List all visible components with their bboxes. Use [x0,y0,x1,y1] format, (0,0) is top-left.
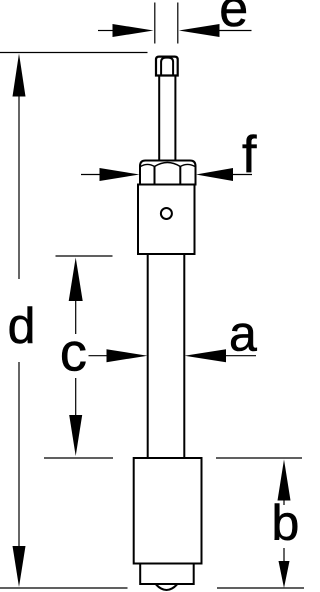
block body [138,185,195,255]
dimension e line right [218,30,252,32]
svg-text:f: f [242,126,257,184]
dimension d arrow up [13,54,26,97]
tip rectangle [140,564,194,585]
dimension a arrow right [185,349,227,362]
bottom extension line right [217,587,304,589]
tip dome [156,585,177,591]
dimension e extension line right [177,3,179,44]
svg-text:b: b [272,495,300,551]
dimension c arrow up [69,258,83,302]
dimension e extension line left [154,3,156,44]
svg-text:a: a [229,306,257,362]
bottom extension line left [0,587,128,589]
dimension c top extension line [56,255,113,257]
dimension a line right [224,355,256,357]
dimension b top extension line [216,457,302,459]
hex nut left facet arc [141,164,155,166]
dimension b arrow down [279,561,290,588]
dimension a line left [89,355,109,357]
hex nut inner line left [154,166,156,185]
svg-text:c: c [60,322,87,382]
svg-text:e: e [219,0,248,38]
dimension f line right [231,174,252,176]
dimension b line upper [283,499,285,505]
hex tip facet arch [161,58,173,76]
upper shaft [158,76,160,161]
dimension d arrow down [13,546,26,587]
dimension b arrow up [278,460,291,501]
dimension e line left [98,30,114,32]
block hole [161,208,172,219]
dimension c line lower [75,378,77,417]
dimension c line upper [75,298,77,334]
dimension f arrow left [100,168,140,181]
dimension a arrow left [107,349,148,362]
dimension d line upper [18,93,20,279]
dimension e arrow right [179,24,220,37]
middle shaft [147,254,149,458]
hex nut inner line right [179,166,181,185]
dimension e arrow left [113,24,154,37]
dimension d line lower [18,362,20,548]
dimension d top extension line [0,52,148,54]
dimension c bottom extension line [44,457,113,459]
dimension b line lower [283,548,285,562]
hex nut outline [140,161,196,185]
svg-text:d: d [8,298,36,354]
hex tip outline [156,57,178,76]
dimension f line left [81,174,101,176]
hex nut right facet arc [180,164,195,166]
dimension c arrow down [69,415,82,456]
dimension f arrow right [196,168,233,181]
bottom cylinder [134,458,202,564]
hex nut middle facet arc [155,163,181,167]
